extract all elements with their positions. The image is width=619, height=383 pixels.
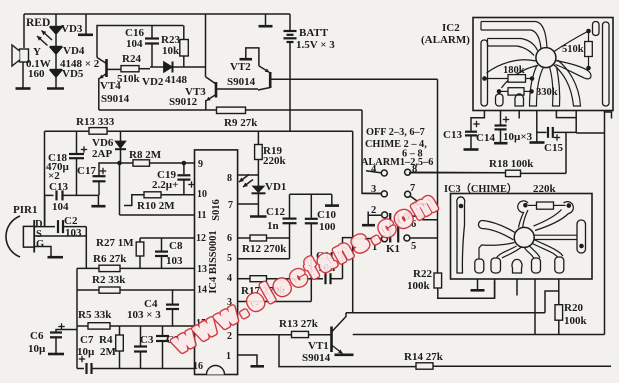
- IC3 left J pad: [457, 197, 465, 273]
- pin6 wire with R12 270k: [238, 237, 250, 239]
- svg-text:510k: 510k: [562, 44, 584, 55]
- svg-text:104: 104: [126, 38, 143, 50]
- svg-text:C10: C10: [317, 209, 336, 221]
- capacitor C12 1n: [289, 224, 291, 238]
- svg-text:13: 13: [197, 264, 207, 275]
- svg-text:160: 160: [28, 68, 45, 80]
- svg-text:R20: R20: [564, 302, 583, 314]
- svg-text:S9014: S9014: [302, 352, 331, 364]
- resistor R4 2M: [119, 326, 121, 335]
- wire VT1 collector to IC3/R20: [346, 312, 545, 314]
- svg-text:OFF 2–3, 6–7: OFF 2–3, 6–7: [366, 127, 425, 138]
- svg-text:220k: 220k: [263, 155, 287, 167]
- svg-text:4148: 4148: [165, 74, 188, 86]
- IC2 trace blob to pad x577: [554, 60, 581, 106]
- IC2 left tall pad: [481, 40, 488, 106]
- capacitor C13 10u: [471, 111, 484, 131]
- capacitor C11 10n: [324, 273, 326, 284]
- switch K1 contact 1: [353, 238, 382, 240]
- IC2 banana trace to bottom: [530, 65, 544, 106]
- capacitor C6 10u: [56, 330, 77, 333]
- diode VD6 2AP: [120, 131, 122, 141]
- resistor 330k in IC2: [499, 90, 508, 92]
- resistor R20 100k: [555, 305, 563, 321]
- svg-text:11: 11: [197, 210, 206, 221]
- svg-text:1.5V × 3: 1.5V × 3: [296, 39, 335, 51]
- svg-text:R27 1M: R27 1M: [96, 237, 134, 249]
- PIR1 sensor: [6, 216, 20, 257]
- svg-text:VT1: VT1: [308, 340, 329, 352]
- stub lead from IC2 pad3: [518, 111, 520, 119]
- resistor R18 100k: [409, 172, 506, 174]
- svg-text:180k: 180k: [503, 65, 525, 76]
- resistor 180k in IC2: [485, 78, 509, 80]
- resistor R10 2M: [124, 195, 144, 206]
- svg-text:R6 27k: R6 27k: [93, 253, 127, 265]
- svg-text:S9014: S9014: [101, 93, 130, 105]
- IC3 left angular trace to pad: [479, 243, 515, 260]
- node pin9 junction: [182, 161, 187, 166]
- svg-text:R10 2M: R10 2M: [137, 200, 175, 212]
- pin8 wire: [238, 174, 259, 176]
- resistor 510k in IC2: [588, 31, 590, 42]
- svg-text:1n: 1n: [267, 220, 279, 232]
- resistor R23 10k: [183, 26, 185, 40]
- svg-text:BATT: BATT: [299, 27, 329, 39]
- wire right edge down to bottom rail: [604, 133, 606, 335]
- IC2 trace to 180k left pad: [487, 60, 537, 73]
- transistor VT2 S9014 with touch plate: [240, 58, 253, 61]
- pin15 wire with R5 33k: [77, 325, 88, 327]
- diode VD5: [50, 69, 63, 71]
- svg-text:R12 270k: R12 270k: [242, 243, 287, 255]
- switch K1 actuator bars: [389, 213, 391, 243]
- speaker Y 0.1W 160: [20, 49, 29, 62]
- svg-text:100k: 100k: [407, 280, 431, 292]
- svg-text:10: 10: [197, 189, 207, 200]
- diode VD1 with arrows: [252, 186, 264, 193]
- svg-text:VD3: VD3: [61, 23, 83, 35]
- capacitor C3: [140, 326, 142, 346]
- resistor R13 27k (base): [292, 331, 309, 337]
- wire bottom rail: [353, 334, 605, 336]
- IC2 trace blob to pad x556: [550, 67, 560, 107]
- IC2 trace loop to 510k bottom: [556, 61, 591, 79]
- svg-text:10µ: 10µ: [77, 346, 95, 358]
- wire IC2 pad7 and hook: [604, 111, 606, 134]
- watermark www.elecfans.com: [168, 186, 445, 358]
- svg-text:R4: R4: [99, 334, 113, 346]
- resistor R19 220k: [257, 131, 259, 144]
- wire VD3 to VD4: [55, 35, 57, 47]
- wire pin2 node down to bottom rail: [279, 335, 416, 367]
- svg-text:510k: 510k: [117, 73, 141, 85]
- pin2 wire: [238, 334, 292, 336]
- wire negative bus y131: [45, 130, 90, 132]
- T-stub plate near VD3: [85, 14, 87, 34]
- pin14 wire with R2 33k: [77, 289, 99, 291]
- svg-text:G: G: [36, 239, 44, 250]
- wire S/C2 down to R6 net: [85, 227, 87, 269]
- svg-text:Y: Y: [33, 46, 41, 58]
- resistor R22 100k: [434, 273, 442, 288]
- svg-text:R13 27k: R13 27k: [279, 318, 319, 330]
- IC2 chip blob: [536, 48, 556, 68]
- IC3 CHIME module box: [451, 194, 593, 280]
- svg-text:C6: C6: [30, 330, 44, 342]
- svg-text:4: 4: [227, 273, 232, 284]
- svg-text:VD2: VD2: [142, 76, 164, 88]
- capacitor C15 10u: [547, 127, 549, 138]
- IC2 top right pad: [593, 22, 600, 36]
- svg-text:C7: C7: [80, 334, 94, 346]
- wire top rail drop to VT3: [205, 14, 207, 77]
- transistor VT1 S9014: [330, 327, 333, 353]
- wire IC2 pad6 down: [575, 111, 577, 134]
- svg-text:C15: C15: [544, 142, 563, 154]
- svg-text:R13 333: R13 333: [76, 116, 115, 128]
- IC3 right curl pad: [534, 202, 574, 231]
- svg-text:R22: R22: [413, 268, 432, 280]
- svg-text:16: 16: [193, 361, 203, 372]
- switch K1 contact 6: [404, 213, 410, 219]
- svg-text:(ALARM): (ALARM): [421, 34, 470, 46]
- wire VT4 collector top: [97, 26, 184, 58]
- ground VT1 emitter: [335, 353, 354, 356]
- svg-text:7: 7: [228, 200, 233, 211]
- pin1 wire to ground: [238, 355, 257, 366]
- capacitor C10 100: [310, 194, 312, 218]
- svg-text:6: 6: [227, 233, 232, 244]
- svg-text:VD5: VD5: [62, 68, 84, 80]
- svg-text:R8 2M: R8 2M: [129, 149, 162, 161]
- capacitor C7 10u electrolytic: [79, 358, 85, 360]
- svg-text:VD4: VD4: [63, 45, 85, 57]
- wire VT4 emitter rail y110: [99, 109, 217, 111]
- resistor R24 510k: [121, 66, 139, 72]
- capacitor C2 103: [57, 220, 59, 233]
- svg-text:104: 104: [52, 201, 69, 213]
- resistor 220k in IC3: [528, 204, 537, 206]
- svg-text:2AP: 2AP: [92, 148, 112, 160]
- svg-text:2.2µ+: 2.2µ+: [152, 179, 178, 191]
- svg-text:100k: 100k: [564, 315, 588, 327]
- svg-text:R18 100k: R18 100k: [489, 158, 534, 170]
- IC3 left curl pad: [518, 201, 528, 228]
- resistor R13 333: [89, 128, 107, 135]
- wire left rail x44.5: [44, 131, 46, 226]
- wire left rail x77: [76, 268, 78, 368]
- wire IC2 pad4 to ground and C15: [536, 111, 538, 142]
- svg-text:C2: C2: [64, 215, 78, 227]
- IC2 traces top-left band2: [488, 39, 538, 56]
- wire C15 node to right edge: [576, 132, 604, 134]
- svg-text:C8: C8: [169, 240, 183, 252]
- svg-text:5: 5: [227, 253, 232, 264]
- svg-text:2: 2: [227, 331, 232, 342]
- battery BATT 1.5Vx3: [289, 14, 291, 31]
- wire top positive rail: [24, 13, 290, 15]
- IC2 ALARM module box: [473, 18, 613, 111]
- wire speaker to ground: [22, 62, 24, 88]
- capacitor C13 104: [45, 194, 54, 196]
- resistor R14 27k: [416, 363, 433, 369]
- wire VD5 to ground: [55, 78, 57, 89]
- svg-text:IC3（CHIME）: IC3（CHIME）: [444, 182, 517, 195]
- svg-text:R5 33k: R5 33k: [78, 309, 112, 321]
- svg-text:RED: RED: [26, 17, 50, 29]
- svg-text:103: 103: [65, 227, 82, 239]
- diode VD2 4148: [164, 62, 173, 73]
- svg-text:S9014: S9014: [227, 76, 256, 88]
- svg-text:R2 33k: R2 33k: [92, 274, 126, 286]
- svg-text:IC2: IC2: [442, 22, 460, 34]
- capacitor C19 2.2u: [183, 163, 185, 174]
- wire VT2 line down to R22: [437, 79, 439, 273]
- wire VD4 to VD5: [55, 55, 57, 70]
- svg-text:10µ: 10µ: [28, 343, 46, 355]
- wire speaker drop: [23, 14, 25, 48]
- wire IC2 pad5 jog: [556, 111, 576, 118]
- wire R9 to switch contact3: [362, 110, 381, 193]
- svg-text:9: 9: [198, 159, 203, 170]
- svg-text:C14: C14: [476, 132, 495, 144]
- IC2 bottom pads: [496, 94, 504, 106]
- capacitor C14 10u: [500, 111, 502, 125]
- node VD6/R8 junction: [117, 161, 122, 166]
- plate stub below VD1: [250, 215, 267, 218]
- IC2 trace to 510k top: [554, 31, 589, 52]
- capacitor C5: [162, 326, 164, 335]
- wire contact8 to R18: [411, 171, 506, 174]
- pin13 wire with R6 27k: [77, 267, 99, 269]
- resistor R27 1M: [139, 238, 141, 242]
- svg-text:220k: 220k: [533, 183, 557, 195]
- IC3 thick trace left: [478, 220, 515, 240]
- svg-text:14: 14: [197, 285, 207, 296]
- IC3 right straight trace: [534, 234, 577, 236]
- transistor VT3 S9012: [215, 82, 218, 98]
- svg-text:103: 103: [166, 255, 183, 267]
- svg-text:3: 3: [371, 184, 376, 195]
- svg-text:R24: R24: [122, 53, 141, 65]
- IC3 leads below: [477, 279, 479, 290]
- svg-text:2M: 2M: [100, 346, 117, 358]
- switch K1 contact 7: [405, 191, 411, 197]
- pin12 wire: [140, 237, 195, 239]
- svg-text:330k: 330k: [536, 87, 558, 98]
- capacitor C18 470u x2: [76, 131, 78, 153]
- IC2 trace to 330k node: [502, 66, 539, 89]
- wire VD6 node down to pin11: [119, 163, 121, 215]
- wire C11 up to K1 contact1 node: [343, 238, 353, 279]
- IC2 right tall pad: [603, 22, 610, 106]
- svg-text:C13: C13: [49, 181, 68, 193]
- wire R24 to VD2 node: [150, 66, 164, 68]
- IC2 traces top-left band1: [481, 22, 547, 50]
- capacitor C4 103x3: [172, 290, 174, 304]
- pin7 wire: [238, 203, 259, 205]
- capacitor C8 103: [161, 238, 163, 251]
- svg-text:C12: C12: [266, 206, 285, 218]
- switch K1 contact 8: [405, 169, 411, 175]
- ground diode chain: [47, 87, 64, 90]
- svg-text:2: 2: [371, 205, 376, 216]
- resistor R8 2M: [120, 162, 134, 164]
- capacitor C16 104: [151, 26, 153, 38]
- svg-text:S016: S016: [211, 199, 222, 221]
- switch K1 contact 2: [368, 212, 381, 216]
- svg-text:7: 7: [410, 183, 415, 194]
- switch K1 contact 3: [362, 192, 381, 194]
- IC3 bottom pads: [475, 259, 484, 273]
- svg-text:PIR1: PIR1: [13, 204, 37, 216]
- IC3 right pad: [577, 220, 586, 253]
- IC4 BISS0001 body: [195, 150, 238, 375]
- svg-text:IC4 BISS0001: IC4 BISS0001: [208, 230, 219, 293]
- ground C17: [97, 195, 99, 205]
- switch K1 contact 4: [366, 171, 381, 173]
- ground speaker: [16, 87, 31, 90]
- svg-text:VT2: VT2: [230, 61, 251, 73]
- svg-text:12: 12: [196, 233, 206, 244]
- svg-text:5: 5: [411, 241, 416, 252]
- svg-text:R14 27k: R14 27k: [404, 351, 444, 363]
- svg-text:S9012: S9012: [169, 96, 198, 108]
- svg-text:103 × 3: 103 × 3: [127, 309, 161, 321]
- pin4 wire with R17 270k: [238, 278, 250, 280]
- IC3 chip blob: [514, 227, 534, 247]
- svg-text:VD1: VD1: [265, 181, 286, 193]
- LED VD3 with arrows: [55, 14, 57, 26]
- resistor R9 27k: [217, 107, 246, 113]
- IC3 traces from blob to bottom pads: [497, 246, 522, 258]
- pin3 wire: [238, 301, 312, 303]
- wire C12/C10 tops to ground: [290, 193, 332, 195]
- svg-text:R9 27k: R9 27k: [224, 117, 258, 129]
- svg-text:10k: 10k: [162, 45, 180, 57]
- svg-text:C13: C13: [443, 129, 462, 141]
- touch plate stub on rail: [265, 14, 267, 26]
- switch K1 contact 5: [404, 235, 410, 241]
- wire bus down to switch: [352, 131, 354, 313]
- svg-text:100: 100: [319, 221, 336, 233]
- transistor VT4 S9014: [105, 59, 108, 77]
- svg-text:C3: C3: [140, 334, 154, 346]
- svg-text:1: 1: [226, 351, 231, 362]
- svg-text:ALARM1–2,5–6: ALARM1–2,5–6: [361, 157, 433, 168]
- svg-text:8: 8: [227, 173, 232, 184]
- svg-text:10µ×3: 10µ×3: [503, 131, 533, 143]
- pin5 wire: [238, 258, 290, 260]
- diode VD4: [50, 46, 63, 48]
- svg-text:K1: K1: [386, 243, 400, 255]
